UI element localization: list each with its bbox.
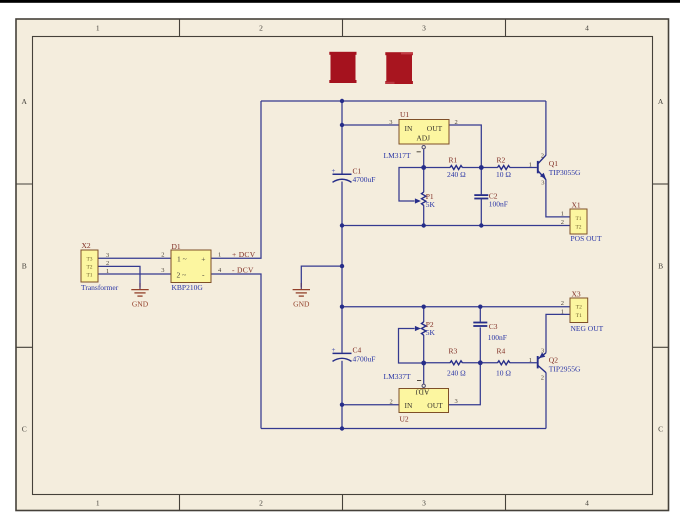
wire X2 pin3 to D1 pin2: [98, 257, 171, 259]
junction node U1 IN tap: [340, 123, 344, 127]
wire center vertical above C1: [341, 101, 343, 174]
svg-text:4700uF: 4700uF: [353, 175, 376, 184]
svg-text:Q1: Q1: [549, 159, 558, 168]
svg-text:R4: R4: [497, 347, 506, 356]
zone tick right 2: [653, 346, 669, 348]
wire ADJ node to R1: [424, 167, 451, 169]
svg-text:B: B: [22, 261, 27, 270]
svg-text:100nF: 100nF: [489, 200, 508, 209]
wire D1 pin4 -DCV riser: [211, 274, 261, 429]
junction node ADJ2 / R3: [421, 361, 426, 366]
svg-text:3: 3: [422, 24, 426, 33]
svg-text:D1: D1: [172, 242, 181, 251]
wire C2 top: [480, 168, 482, 195]
svg-text:2 ~: 2 ~: [177, 270, 187, 279]
svg-text:3: 3: [161, 267, 164, 274]
svg-text:240 Ω: 240 Ω: [447, 368, 466, 377]
svg-text:2: 2: [259, 24, 263, 33]
capacitor C1 4700uF: [332, 167, 376, 185]
junction node P2 ground: [422, 305, 426, 309]
svg-text:GND: GND: [132, 300, 149, 309]
ground symbol center: [293, 283, 310, 296]
wire center vertical C1 to C4: [341, 182, 343, 353]
inner frame line: [33, 37, 653, 495]
wire R3 to node: [462, 362, 480, 364]
wire R4 to Q2 base: [510, 362, 537, 364]
wire Q2 collector riser: [545, 373, 547, 429]
connector X3 NEG OUT: [561, 289, 604, 333]
svg-text:2: 2: [390, 398, 393, 405]
transistor Q1 TIP3055G: [529, 152, 581, 186]
junction node GND stub: [340, 264, 344, 268]
capacitor C2 100nF: [474, 191, 508, 208]
svg-text:POS OUT: POS OUT: [571, 234, 602, 243]
svg-text:1: 1: [106, 268, 109, 275]
svg-text:3: 3: [455, 398, 458, 405]
svg-text:ADJ: ADJ: [416, 134, 430, 143]
top black bar: [0, 0, 680, 3]
wire node to R3: [424, 362, 451, 364]
svg-text:2: 2: [541, 152, 544, 159]
svg-text:2: 2: [561, 300, 564, 307]
resistor R2 10 Ohm: [496, 156, 511, 179]
svg-text:10 Ω: 10 Ω: [496, 368, 511, 377]
wire top rail: [261, 100, 546, 102]
svg-text:5K: 5K: [426, 200, 436, 209]
wire X2 pin1 to D1 pin3: [98, 273, 171, 275]
zone tick top 3: [505, 19, 507, 37]
svg-text:R3: R3: [449, 347, 458, 356]
wire Q2 emitter to X3 pin1: [546, 314, 570, 352]
svg-text:Q2: Q2: [549, 355, 558, 364]
junction node C2 ground: [479, 223, 483, 227]
svg-text:GND: GND: [293, 300, 310, 309]
wire U2 IN tap: [342, 404, 399, 406]
wire X2 pin2 to GND drop: [98, 266, 140, 287]
svg-text:1: 1: [218, 251, 221, 258]
wire Q1 emitter to X1 pin1: [546, 179, 570, 217]
svg-text:4: 4: [585, 498, 589, 507]
zone tick left 1: [16, 183, 33, 185]
junction node P1 ground: [422, 223, 426, 227]
svg-text:B: B: [658, 261, 663, 270]
wire R2 to Q1 base: [510, 167, 537, 169]
svg-text:TIP2955G: TIP2955G: [549, 364, 581, 373]
ground symbol left: [131, 283, 148, 296]
wire center vertical below C4: [341, 361, 343, 429]
zone tick bottom 1: [179, 495, 181, 511]
resistor R3 240 Ohm: [447, 347, 466, 378]
bridge rectifier D1 KBP210G: [161, 242, 222, 292]
wire R1 to node: [462, 167, 481, 169]
svg-text:LM337T: LM337T: [384, 372, 412, 381]
svg-text:T1: T1: [86, 273, 92, 279]
svg-text:C: C: [658, 425, 663, 434]
zone tick bottom 3: [505, 495, 507, 511]
svg-text:4700uF: 4700uF: [353, 354, 376, 363]
svg-text:IN: IN: [405, 401, 413, 410]
wire P1 top: [423, 168, 425, 193]
svg-text:+: +: [332, 346, 336, 354]
svg-text:U2: U2: [400, 415, 409, 424]
svg-text:TIP3055G: TIP3055G: [549, 168, 581, 177]
svg-text:A: A: [21, 97, 27, 106]
svg-text:C3: C3: [489, 322, 498, 331]
svg-text:T2: T2: [86, 265, 92, 271]
svg-text:3: 3: [541, 348, 544, 355]
svg-text:1: 1: [96, 498, 100, 507]
svg-text:IN: IN: [405, 124, 413, 133]
junction node U2 IN tap: [340, 403, 344, 407]
wire D1 pin1 +DCV riser: [211, 101, 261, 258]
svg-text:1: 1: [529, 357, 532, 364]
wire P2 bottom: [423, 335, 425, 363]
svg-text:R2: R2: [497, 156, 506, 165]
wire C2 bottom: [480, 199, 482, 225]
zone tick top 1: [179, 19, 181, 37]
junction node U1 OUT / R1 / C2: [479, 165, 484, 170]
transistor Q2 TIP2955G: [529, 348, 581, 382]
svg-text:+: +: [201, 254, 205, 263]
wire U1 OUT to R1 node: [449, 125, 481, 168]
svg-text:T3: T3: [86, 257, 92, 263]
svg-text:C4: C4: [353, 346, 362, 355]
wire node to R4: [480, 362, 497, 364]
wire bottom rail: [261, 428, 546, 430]
svg-text:A: A: [658, 97, 664, 106]
svg-text:R1: R1: [449, 156, 458, 165]
wire U2 OUT riser: [448, 363, 480, 405]
wire U1 IN tap: [342, 124, 399, 126]
svg-text:100nF: 100nF: [488, 333, 507, 342]
svg-text:2: 2: [455, 119, 458, 126]
potentiometer P2 5K: [415, 320, 436, 337]
zone tick top 2: [342, 19, 344, 37]
wire P2 wiper loop: [399, 329, 424, 364]
potentiometer P1 5K: [415, 192, 436, 209]
wire lower ground rail: [342, 306, 570, 308]
red image placeholder 1: [329, 52, 356, 83]
connector X2 Transformer: [81, 241, 119, 292]
svg-text:T1: T1: [575, 216, 581, 222]
wire U2 ADJ up: [423, 363, 425, 384]
svg-text:X3: X3: [572, 289, 581, 298]
junction node upper ground rail left: [340, 223, 344, 227]
svg-text:1: 1: [561, 210, 564, 217]
svg-text:X1: X1: [572, 200, 581, 209]
wire upper ground rail: [342, 225, 570, 227]
svg-text:2: 2: [561, 219, 564, 226]
svg-text:2: 2: [541, 375, 544, 382]
capacitor C4 4700uF: [332, 346, 376, 364]
capacitor C3 100nF: [473, 322, 507, 342]
svg-text:1: 1: [561, 308, 564, 315]
wire center GND stub: [301, 266, 342, 287]
svg-text:OUT: OUT: [427, 124, 443, 133]
svg-text:KBP210G: KBP210G: [172, 283, 204, 292]
wire Q1 collector riser: [545, 101, 547, 155]
svg-text:3: 3: [106, 252, 109, 259]
svg-text:X2: X2: [82, 241, 91, 250]
op-amp regulator U1 LM317T: [384, 110, 458, 160]
svg-text:- DCV: - DCV: [232, 266, 254, 275]
svg-text:LM317T: LM317T: [384, 151, 412, 160]
svg-text:10 Ω: 10 Ω: [496, 170, 511, 179]
wire C3 top: [479, 307, 481, 322]
junction node bottom rail / C4: [340, 426, 344, 430]
junction node C3 ground: [478, 305, 482, 309]
svg-text:T2: T2: [575, 225, 581, 231]
red image placeholder 2: [385, 52, 413, 84]
svg-text:5K: 5K: [426, 328, 436, 337]
svg-text:2: 2: [161, 252, 164, 259]
svg-text:T1: T1: [576, 313, 582, 319]
wire node to R2: [481, 167, 497, 169]
svg-text:U1: U1: [400, 110, 409, 119]
svg-text:1: 1: [96, 24, 100, 33]
zone tick right 1: [653, 183, 669, 185]
zone tick bottom 2: [342, 495, 344, 511]
junction node ADJ / R1: [421, 165, 426, 170]
zone tick left 2: [16, 346, 33, 348]
resistor R1 240 Ohm: [447, 156, 466, 179]
svg-text:240 Ω: 240 Ω: [447, 170, 466, 179]
svg-text:+: +: [332, 167, 336, 175]
connector X1 POS OUT: [561, 200, 602, 243]
svg-text:3: 3: [541, 179, 544, 186]
svg-text:3: 3: [422, 498, 426, 507]
op-amp regulator U2 LM337T: [384, 372, 458, 424]
junction node U2 OUT / R3 / C3: [478, 360, 483, 365]
svg-text:1 ~: 1 ~: [177, 254, 187, 263]
wire U1 ADJ down: [423, 149, 425, 167]
svg-text:NEG OUT: NEG OUT: [571, 324, 604, 333]
wire P1 wiper loop: [399, 168, 424, 202]
junction node top rail / C1: [340, 99, 344, 103]
svg-text:1: 1: [529, 162, 532, 169]
resistor R4 10 Ohm: [496, 347, 511, 378]
wire P1 bottom: [423, 205, 425, 225]
svg-text:2: 2: [106, 260, 109, 267]
svg-text:ADJ: ADJ: [416, 388, 430, 397]
svg-text:3: 3: [389, 119, 392, 126]
svg-text:2: 2: [259, 498, 263, 507]
svg-text:Transformer: Transformer: [81, 283, 119, 292]
junction node lower ground rail left: [340, 305, 344, 309]
svg-text:C1: C1: [353, 167, 362, 176]
wire P2 top: [423, 307, 425, 322]
svg-text:T2: T2: [576, 304, 582, 310]
svg-text:OUT: OUT: [427, 401, 443, 410]
wire C3 bottom: [479, 327, 481, 362]
svg-text:C: C: [22, 425, 27, 434]
svg-text:+ DCV: + DCV: [232, 250, 256, 259]
svg-text:4: 4: [585, 24, 589, 33]
